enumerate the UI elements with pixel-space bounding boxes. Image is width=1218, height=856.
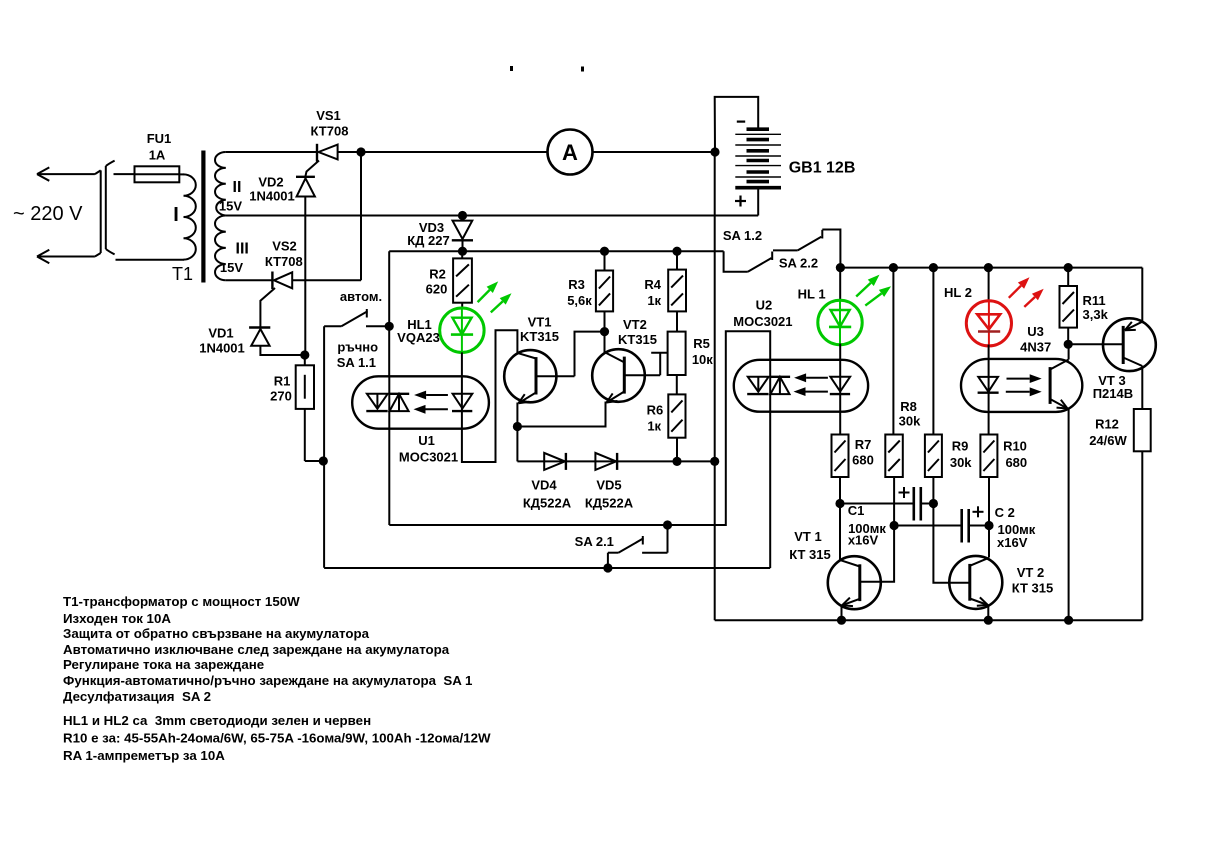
diode VD2 [296, 177, 315, 355]
node SA1.1 contact [385, 322, 394, 331]
transistor VT3 (PNP) [1103, 318, 1156, 371]
wire battery minus drop [714, 152, 716, 620]
svg-text:x16V: x16V [848, 533, 879, 548]
wire HL1 to U2 LED [839, 344, 841, 360]
node C2 left [890, 521, 899, 530]
svg-text:VT1: VT1 [528, 315, 552, 330]
wire top rail (winding II to VS1) [226, 151, 317, 153]
svg-text:R3: R3 [568, 277, 585, 292]
svg-text:R4: R4 [644, 277, 661, 292]
svg-text:GB1 12В: GB1 12В [789, 160, 856, 177]
node rail R9 [929, 263, 938, 272]
svg-text:R9: R9 [952, 438, 969, 453]
node R1 to pivot line [319, 456, 328, 465]
svg-text:24/6W: 24/6W [1089, 433, 1127, 448]
capacitor C2 [894, 506, 989, 542]
optocoupler U3 LED [978, 359, 999, 412]
svg-text:HL1 и HL2 са 3mm светодиоди з: HL1 и HL2 са 3mm светодиоди зелен и черв… [63, 713, 371, 728]
svg-text:MOC3021: MOC3021 [733, 314, 792, 329]
wire U3 emitter down [1068, 409, 1070, 621]
text winding I [173, 204, 179, 226]
wire battery plus lead [757, 190, 759, 216]
resistor R2 [453, 251, 472, 308]
wire R12 to bottom rail [1141, 451, 1143, 620]
svg-text:R1: R1 [274, 374, 291, 389]
svg-text:Функция-автоматично/ръчно заре: Функция-автоматично/ръчно зареждане на а… [63, 673, 473, 688]
svg-text:U1: U1 [418, 433, 435, 448]
resistor R8 [885, 435, 903, 526]
resistor R7 [832, 435, 849, 504]
transformer core [201, 151, 205, 283]
transformer secondary winding III [215, 216, 226, 281]
wire HL1 to U1 LED [461, 352, 463, 376]
node R6 bottom [672, 457, 681, 466]
node VD3 cathode [458, 247, 467, 256]
node VD1-VD2-R1 junction [300, 350, 309, 359]
text HL 2 [944, 285, 972, 300]
svg-text:I: I [173, 204, 179, 226]
node VS1-VS2 junction [356, 147, 365, 156]
wire U2 LED to R7 [839, 412, 841, 435]
svg-text:КТ708: КТ708 [265, 254, 303, 269]
fuse FU1 [135, 166, 180, 182]
wire C1 left to VT1 collector [839, 504, 841, 561]
text II 15V [219, 199, 242, 214]
wire VS2 to riser [292, 279, 361, 281]
svg-text:VT 1: VT 1 [794, 529, 821, 544]
svg-text:КД522А: КД522А [523, 495, 572, 510]
svg-text:1к: 1к [647, 419, 661, 434]
node R3 top [600, 247, 609, 256]
svg-text:VD5: VD5 [596, 478, 621, 493]
svg-text:KT315: KT315 [618, 332, 657, 347]
svg-text:5,6к: 5,6к [567, 293, 592, 308]
wire R3 node to VT2 collector [604, 332, 606, 353]
text HL 1 [798, 286, 826, 301]
node rail R11 [1064, 263, 1073, 272]
text U2 MOC3021 [733, 297, 792, 329]
wire indicator rail [840, 267, 1142, 269]
svg-text:VD2: VD2 [258, 175, 283, 190]
transistor VT 2 (bottom) [949, 556, 1002, 609]
text R3 5,6k [567, 277, 592, 308]
svg-text:Десулфатизация SA 2: Десулфатизация SA 2 [63, 689, 211, 704]
svg-text:30k: 30k [899, 413, 921, 428]
svg-text:620: 620 [426, 281, 448, 296]
svg-text:R12: R12 [1095, 416, 1119, 431]
wire emitters junction to diode line [516, 427, 518, 462]
text R8 30k [899, 399, 921, 429]
svg-text:R11: R11 [1083, 293, 1106, 308]
text avtom [340, 289, 382, 304]
resistor R1 [296, 355, 324, 461]
svg-text:КТ708: КТ708 [311, 124, 349, 139]
node VT2 emitter [984, 616, 993, 625]
battery GB1 cells [735, 129, 781, 188]
svg-text:RA 1-ампреметър за 10А: RA 1-ампреметър за 10А [63, 748, 225, 763]
wire C2 right to VT2 collector [988, 526, 990, 558]
svg-text:1к: 1к [647, 293, 661, 308]
wire R8 node down to VT1 base [861, 526, 895, 582]
svg-text:KT315: KT315 [520, 329, 559, 344]
svg-text:Регулиране тока на зареждане: Регулиране тока на зареждане [63, 657, 264, 672]
svg-text:4N37: 4N37 [1020, 340, 1051, 355]
LED HL 2 arrows [1009, 277, 1044, 307]
node emitters junction [513, 422, 522, 431]
node R3 bottom VT2 collector [600, 327, 609, 336]
text VD3 KD227 [407, 220, 450, 248]
text C2 100mk x16V [995, 505, 1036, 550]
text R9 30k [950, 438, 972, 470]
switch SA2.2 [773, 230, 840, 268]
svg-text:SA 2.1: SA 2.1 [575, 534, 614, 549]
svg-text:R5: R5 [693, 336, 710, 351]
svg-text:III: III [236, 241, 249, 258]
svg-text:Защита от обратно свързване на: Защита от обратно свързване на акумулато… [63, 626, 370, 641]
svg-text:КД522А: КД522А [585, 495, 634, 510]
mark dot 2 [581, 67, 584, 72]
wire riser VS2 output to top rail [360, 152, 362, 280]
optocoupler U1 LED [452, 376, 472, 428]
svg-text:1A: 1A [149, 148, 166, 163]
wire control rail left drop [388, 251, 390, 376]
battery minus sign [737, 120, 745, 122]
resistor R3 [596, 251, 613, 331]
svg-text:x16V: x16V [997, 535, 1028, 550]
svg-text:HL 1: HL 1 [798, 286, 826, 301]
wire VT2 emitter down [517, 402, 605, 427]
wire battery minus top [715, 97, 759, 152]
optocoupler U1 body [352, 376, 489, 428]
switch SA1.2 [724, 251, 773, 272]
svg-text:ръчно: ръчно [337, 340, 378, 355]
svg-text:автом.: автом. [340, 289, 382, 304]
text FU1 1A [147, 131, 172, 163]
text VD4 KD522A [523, 478, 572, 511]
svg-text:R6: R6 [647, 403, 664, 418]
switch SA1.1 [324, 309, 389, 326]
svg-text:HL 2: HL 2 [944, 285, 972, 300]
text III 15V [220, 260, 243, 275]
resistor R6 [668, 394, 685, 461]
optotriac U2 triac [747, 360, 790, 412]
connector plug X1 [101, 161, 115, 255]
text R5 10k [692, 336, 713, 367]
transistor VT1 [504, 350, 574, 403]
node R11 VT3 base [1064, 340, 1073, 349]
text HL1 VQA23 [397, 317, 440, 345]
svg-text:VT 2: VT 2 [1017, 565, 1044, 580]
svg-text:15V: 15V [220, 260, 243, 275]
transistor VT2 [592, 349, 660, 402]
svg-text:VQA23: VQA23 [397, 330, 440, 345]
diode VD1 [249, 328, 305, 356]
node diode line to battery minus [710, 457, 719, 466]
svg-text:FU1: FU1 [147, 131, 172, 146]
wire diode line [517, 460, 714, 462]
text R12 24/6W [1089, 416, 1127, 448]
mark dot 1 [510, 66, 513, 71]
svg-text:R8: R8 [900, 399, 917, 414]
text R11 3,3k [1083, 293, 1109, 322]
wire rail to R9 [932, 268, 934, 435]
wire VT1 emitter down [516, 403, 518, 427]
text R10 680 [1003, 438, 1027, 470]
text VT 2 KT 315 [1012, 565, 1054, 596]
node C1 right [929, 499, 938, 508]
optocoupler U3 arrows [1006, 374, 1042, 396]
text VS2 KT708 [265, 239, 303, 270]
text C1 100mk x16V [848, 503, 887, 548]
node VT1 emitter [837, 616, 846, 625]
diode VD4 [544, 453, 566, 470]
text winding III [236, 241, 249, 258]
text VS1 KT708 [311, 108, 349, 139]
svg-text:C 2: C 2 [995, 505, 1015, 520]
optocoupler U1 arrows [414, 391, 448, 414]
svg-text:VT2: VT2 [623, 317, 647, 332]
svg-text:VS2: VS2 [272, 239, 297, 254]
thyristor VS2 [260, 272, 292, 328]
wire SA1.1 pivot drop [323, 326, 325, 568]
LED HL 1 arrows [856, 275, 891, 306]
text R4 1k [644, 277, 661, 308]
switch SA2.1 [608, 525, 668, 568]
text VD5 KD522A [585, 478, 634, 511]
text ~220V [13, 203, 83, 225]
text VD2 1N4001 [249, 175, 295, 204]
text R6 1k [647, 403, 664, 434]
text notes block [63, 594, 491, 763]
optocoupler U2 LED [830, 360, 850, 412]
text U1 MOC3021 [399, 433, 458, 464]
svg-text:10к: 10к [692, 352, 713, 367]
svg-text:П214В: П214В [1093, 386, 1133, 401]
node battery minus junction [710, 147, 719, 156]
wire top rail (VS1 to ammeter) [338, 151, 548, 153]
thyristor VS1 [305, 144, 337, 177]
node SA2.1 top contact [663, 520, 672, 529]
svg-text:30k: 30k [950, 455, 972, 470]
wire fuse to primary [179, 173, 184, 175]
svg-text:~ 220 V: ~ 220 V [13, 203, 83, 225]
wire VT1 emitter to rail [841, 605, 843, 620]
capacitor C1 [840, 487, 933, 521]
wire control rail [389, 250, 723, 252]
wire mains bottom with arrow [37, 250, 101, 263]
text GB1 12V [789, 160, 856, 177]
node VD3 anode [458, 211, 467, 220]
node rail HL2 [984, 263, 993, 272]
svg-text:R2: R2 [429, 267, 446, 282]
svg-text:Т1-трансформатор с мощност 150: Т1-трансформатор с мощност 150W [63, 594, 300, 609]
resistor R5 [668, 332, 686, 395]
svg-text:R10: R10 [1003, 438, 1027, 453]
svg-text:А: А [562, 140, 578, 165]
text R7 680 [852, 437, 874, 468]
node U3 emitter [1064, 616, 1073, 625]
svg-text:VD4: VD4 [531, 478, 557, 493]
transistor VT 1 (bottom) [828, 556, 881, 609]
wire VT2 emitter to rail [987, 605, 989, 620]
wire multivibrator bottom rail [715, 619, 1143, 621]
wire mains top with arrow [37, 167, 101, 180]
svg-text:T1: T1 [172, 264, 193, 284]
wire U1 LED cathode to VT1 collector [462, 330, 518, 462]
resistor R4 [668, 251, 686, 331]
wire U1 triac MT1 down [388, 429, 390, 525]
svg-text:680: 680 [1005, 455, 1027, 470]
wire rail to HL2 [988, 268, 990, 301]
svg-text:U3: U3 [1027, 324, 1044, 339]
resistor R11 [1060, 268, 1078, 345]
resistor R12 [1134, 409, 1151, 451]
battery plus sign [735, 196, 746, 207]
LED HL 2 (red) [966, 301, 1011, 346]
text ruchno SA1.1 [337, 340, 378, 371]
svg-text:15V: 15V [219, 199, 242, 214]
wire rail to R8 [892, 268, 894, 435]
LED HL 1 (green) [818, 300, 862, 344]
LED HL1 (green) [440, 308, 484, 352]
text VD1 1N4001 [199, 326, 245, 356]
diode VD5 [595, 453, 617, 470]
text SA 1.2 [723, 228, 762, 243]
diode VD3 [452, 216, 473, 252]
optocoupler U3 body [961, 359, 1082, 412]
wire R9 node down to VT2 base [933, 504, 969, 583]
svg-text:SA 2.2: SA 2.2 [779, 256, 818, 271]
svg-text:MOC3021: MOC3021 [399, 449, 458, 464]
optocoupler U2 body [734, 360, 868, 412]
text winding II [233, 179, 242, 196]
svg-text:680: 680 [852, 453, 874, 468]
wire primary bottom [116, 259, 185, 261]
wire VT3 emitter to rail [1141, 268, 1143, 322]
svg-text:КД 227: КД 227 [407, 233, 450, 248]
text VT2 KT315 [618, 317, 657, 347]
svg-text:1N4001: 1N4001 [249, 189, 295, 204]
wire VT1 base to R3 node [575, 332, 605, 377]
text VT 3 P214V [1093, 373, 1133, 401]
transformer secondary winding II [215, 152, 226, 216]
ammeter RA1 [548, 130, 593, 175]
wire plug to fuse [114, 173, 135, 175]
wire VT3 base [1068, 343, 1123, 345]
LED HL1 arrows [478, 281, 512, 312]
text VT1 KT315 [520, 315, 559, 345]
svg-text:Изходен ток 10А: Изходен ток 10А [63, 611, 171, 626]
svg-text:VS1: VS1 [316, 108, 341, 123]
wire VT2 base to R5 wiper [651, 353, 667, 375]
wire mid rail (center tap to battery plus) [226, 215, 758, 217]
wire U3 collector up [1068, 344, 1070, 359]
transformer T1 primary winding I [184, 174, 196, 259]
svg-text:C1: C1 [848, 503, 865, 518]
svg-text:SA 1.2: SA 1.2 [723, 228, 762, 243]
text SA 2.1 [575, 534, 614, 549]
svg-text:КТ 315: КТ 315 [1012, 581, 1054, 596]
wire top rail (ammeter to battery) [593, 151, 716, 153]
resistor R10 [980, 435, 997, 526]
svg-text:Автоматично изключване след за: Автоматично изключване след зареждане на… [63, 642, 450, 657]
node C1 left [835, 499, 844, 508]
svg-text:R7: R7 [855, 437, 872, 452]
text R2 620 [426, 267, 448, 297]
svg-text:R10 е за: 45-55Ah-24ома/6W, 65: R10 е за: 45-55Ah-24ома/6W, 65-75A -16ом… [63, 731, 491, 746]
optocoupler U2 arrows [794, 373, 828, 396]
wire bottom-left rail [324, 567, 770, 569]
svg-text:1N4001: 1N4001 [199, 341, 245, 356]
svg-text:VD1: VD1 [208, 326, 233, 341]
svg-text:II: II [233, 179, 242, 196]
text R1 270 [270, 374, 292, 404]
wire HL2 to U3 LED [988, 345, 990, 359]
text SA 2.2 [779, 256, 818, 271]
node rail R8 [889, 263, 898, 272]
wire U1 MT1 link [389, 331, 770, 525]
wire rail to HL1 [839, 268, 841, 301]
wire U2 triac MT1 down [769, 412, 771, 568]
wire HL2 cathode to R10 [988, 412, 990, 435]
node rail HL1 [836, 263, 845, 272]
text U3 4N37 [1020, 324, 1051, 355]
node R4 top [672, 247, 681, 256]
svg-text:3,3k: 3,3k [1083, 307, 1109, 322]
wire winding III bottom to VS2 [226, 279, 273, 281]
phototransistor U3 [1050, 360, 1069, 409]
node C2 right [984, 521, 993, 530]
node SA2.1 bottom [603, 563, 612, 572]
resistor R9 [925, 435, 942, 504]
svg-text:SA 1.1: SA 1.1 [337, 355, 376, 370]
text VT 1 KT 315 [789, 529, 831, 562]
svg-text:270: 270 [270, 389, 292, 404]
svg-text:КТ 315: КТ 315 [789, 547, 831, 562]
optotriac U1 triac [366, 376, 409, 428]
text T1 [172, 264, 193, 284]
wire VT3 collector to R12 [1141, 366, 1143, 409]
svg-text:U2: U2 [756, 297, 773, 312]
